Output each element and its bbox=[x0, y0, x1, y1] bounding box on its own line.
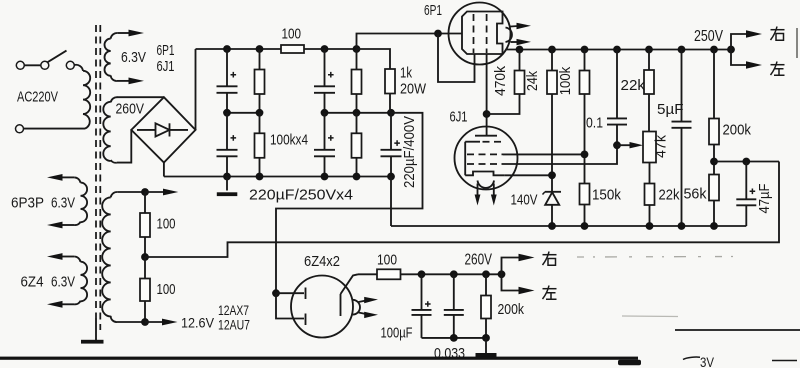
svg-text:56k: 56k bbox=[684, 186, 707, 203]
svg-text:6J1: 6J1 bbox=[157, 58, 175, 75]
wire bbox=[24, 64, 41, 66]
node bbox=[645, 46, 653, 54]
wire (node to 470k bottom) bbox=[487, 94, 520, 114]
svg-text:100: 100 bbox=[377, 252, 397, 269]
arrow output left (260V) bbox=[502, 274, 535, 294]
svg-text:6P3P: 6P3P bbox=[11, 196, 44, 212]
node bbox=[223, 173, 231, 181]
tube V1 6P1 envelope circle bbox=[449, 3, 511, 65]
node bbox=[450, 270, 458, 278]
node (heater mid tap) bbox=[141, 253, 149, 261]
node bbox=[516, 46, 524, 54]
winding 260V bbox=[103, 97, 117, 163]
wire (midpoint 2) bbox=[325, 112, 392, 114]
resistor R 100 (lower humdinger) bbox=[140, 257, 150, 322]
svg-text:6J1: 6J1 bbox=[450, 109, 468, 126]
node (47µF top) bbox=[742, 158, 750, 166]
wire + arrow 12.6V bbox=[145, 321, 163, 323]
node (heater top tap) bbox=[141, 188, 149, 196]
svg-text:6P1: 6P1 bbox=[157, 42, 175, 59]
wire (heater mid to bias net) bbox=[145, 162, 779, 258]
svg-text:100µF: 100µF bbox=[381, 325, 413, 342]
capacitor C 5µF bbox=[672, 50, 692, 227]
resistor R 56k bbox=[709, 175, 719, 227]
6Z4 plate 2 bbox=[276, 293, 306, 325]
arrow 6J1 heater 1 bbox=[475, 184, 481, 206]
svg-text:0.1: 0.1 bbox=[586, 115, 603, 132]
svg-text:6Z4x2: 6Z4x2 bbox=[304, 253, 340, 270]
wire (cap negatives) bbox=[422, 337, 487, 339]
resistor R 1k 20W bbox=[385, 69, 395, 113]
wire (midpoint 1) bbox=[227, 112, 260, 114]
node bbox=[498, 270, 506, 278]
svg-text:5µF: 5µF bbox=[657, 101, 684, 118]
resistor R 100 (rail) bbox=[281, 45, 357, 53]
svg-text:6.3V: 6.3V bbox=[121, 49, 146, 66]
wire (divider junction to 47µF and bias) bbox=[714, 161, 779, 163]
winding 12.6V heater bbox=[102, 192, 145, 322]
arrow 6Z4 top bbox=[47, 253, 63, 260]
svg-text:6.3V: 6.3V bbox=[51, 275, 75, 291]
wire (bridge + up to B+ rail) bbox=[195, 49, 197, 130]
svg-text:12.6V: 12.6V bbox=[181, 315, 215, 331]
svg-text:22k: 22k bbox=[659, 187, 680, 204]
node bbox=[353, 173, 361, 181]
node bbox=[646, 222, 654, 230]
wire (riser to 6P1 plate) bbox=[357, 34, 463, 50]
arrow 6P1 heater 2 bbox=[511, 39, 532, 45]
svg-text:470k: 470k bbox=[492, 66, 509, 96]
svg-text:200k: 200k bbox=[723, 122, 752, 139]
svg-text:AC220V: AC220V bbox=[17, 89, 58, 106]
resistor R 150k bbox=[580, 184, 590, 227]
6Z4 cathode bar bbox=[340, 294, 342, 316]
node bbox=[418, 270, 426, 278]
ground (6Z4 filter) bbox=[476, 338, 497, 357]
terminal J1 (AC line top) bbox=[16, 61, 24, 69]
wire (6J1 cathode to 24k) bbox=[504, 174, 552, 176]
wire (rail to 1k) bbox=[357, 49, 391, 69]
arrow output right (260V) bbox=[502, 254, 535, 275]
svg-text:100: 100 bbox=[157, 216, 176, 233]
arrow 6P3P top bbox=[47, 174, 63, 181]
svg-text:200k: 200k bbox=[498, 301, 525, 318]
resistor R 100k (upper, first) bbox=[255, 49, 265, 113]
wire bbox=[24, 128, 85, 130]
wire (6J1 grid2 to 100k/150k) bbox=[503, 153, 585, 155]
node (6Z4 plates feed) bbox=[272, 289, 280, 297]
svg-text:220µF/400V: 220µF/400V bbox=[401, 116, 418, 188]
resistor R 470k bbox=[515, 50, 525, 95]
artifact faint smudge bbox=[622, 315, 678, 318]
wire (6J1 grid1 to 0.1) bbox=[503, 145, 617, 164]
6P1 grid (dashed) bbox=[473, 14, 475, 53]
capacitor C 0.033 bbox=[444, 274, 464, 338]
node bbox=[548, 222, 556, 230]
node (0.1/wiper) bbox=[613, 141, 621, 149]
arrow 6.3V top bbox=[129, 30, 145, 37]
capacitor C 100µF bbox=[412, 274, 432, 338]
node bbox=[482, 270, 490, 278]
node bbox=[256, 173, 264, 181]
wire + arrow heater top bbox=[145, 191, 164, 193]
capacitor C2b 220µF (lower) bbox=[314, 113, 335, 177]
node bbox=[223, 109, 231, 117]
node bbox=[387, 109, 395, 117]
hanzi zuo (left) 250V bbox=[771, 62, 785, 76]
node bbox=[256, 109, 264, 117]
6P1 screen (dashed) bbox=[486, 14, 488, 53]
tube V3 6Z4 envelope circle bbox=[291, 276, 353, 338]
hanzi you (right) 250V bbox=[771, 27, 785, 41]
wire 250V rail bbox=[506, 49, 731, 51]
svg-text:6P1: 6P1 bbox=[424, 2, 442, 19]
node bbox=[581, 222, 589, 230]
resistor R 100k (right bank) bbox=[580, 50, 590, 184]
winding 6Z4 6.3V bbox=[63, 256, 88, 304]
resistor R 100 (upper humdinger) bbox=[140, 192, 150, 257]
wire (next schematic, top right) bbox=[675, 329, 800, 331]
wire (bridge - down to negative rail) bbox=[163, 163, 165, 177]
6J1 heater bump bbox=[478, 181, 495, 188]
arrow 6P1 heater 1 bbox=[511, 23, 532, 29]
wire B+ top rail bbox=[196, 48, 282, 50]
node bbox=[321, 173, 329, 181]
capacitor C1a 220µF (upper) bbox=[217, 49, 238, 113]
svg-text:22k: 22k bbox=[621, 77, 646, 94]
node bbox=[613, 46, 621, 54]
bridge diode symbol bbox=[137, 123, 188, 136]
svg-text:6Z4: 6Z4 bbox=[21, 275, 44, 291]
svg-text:220µF/250Vx4: 220µF/250Vx4 bbox=[249, 187, 353, 204]
resistor R 100 (6Z4 output) bbox=[377, 269, 502, 279]
arrow 6Z4 heater 1 bbox=[359, 297, 379, 303]
svg-text:47k: 47k bbox=[653, 135, 670, 158]
terminal J2 (switch pole) bbox=[41, 61, 49, 69]
node bbox=[321, 45, 329, 53]
wire (bottom rail to ground bus) bbox=[390, 177, 392, 227]
6P1 heater bump bbox=[506, 28, 512, 43]
6J1 grid2 row (dashed) bbox=[467, 153, 503, 155]
ground (filter) bbox=[217, 177, 238, 197]
arrow 6P3P bottom bbox=[47, 222, 63, 229]
node (100k/grid2) bbox=[581, 151, 589, 159]
resistor R 22k (lower right) bbox=[645, 184, 655, 227]
arrow output right (250V) bbox=[731, 30, 762, 49]
svg-text:100: 100 bbox=[282, 26, 302, 43]
ground (transformer core) bbox=[81, 340, 104, 344]
bridge rectifier D1 diamond bbox=[131, 97, 195, 162]
resistor R 100k (upper, second) bbox=[352, 49, 362, 113]
6Z4 cathode lead (diagonal) bbox=[341, 274, 359, 294]
node bbox=[223, 45, 231, 53]
svg-text:100kx4: 100kx4 bbox=[270, 132, 308, 149]
node bbox=[678, 46, 686, 54]
6J1 grid3 row bbox=[465, 141, 503, 143]
capacitor C 47µF bbox=[736, 162, 756, 227]
capacitor C2a 220µF (upper) bbox=[314, 49, 335, 113]
resistor R 100k (lower, second) bbox=[352, 113, 362, 177]
potentiometer R 47k bbox=[643, 132, 656, 184]
wire ground bus bbox=[391, 225, 746, 227]
artifact faint dotted line bbox=[577, 256, 738, 259]
node bbox=[548, 46, 556, 54]
resistor R 200k (right) bbox=[709, 50, 719, 175]
zener D2 140V bbox=[543, 192, 562, 226]
6J1 grid box left edge bbox=[464, 142, 466, 176]
node bbox=[353, 45, 361, 53]
node bbox=[353, 109, 361, 117]
6P1 plate structure bbox=[462, 12, 503, 55]
capacitor C 0.1 bbox=[607, 50, 627, 146]
svg-text:260V: 260V bbox=[465, 252, 493, 269]
6J1 grid1 row (dashed) bbox=[467, 163, 503, 165]
node (heater bottom tap) bbox=[141, 318, 149, 326]
transformer T1 core bbox=[96, 25, 100, 340]
node bbox=[581, 46, 589, 54]
node bbox=[727, 46, 735, 54]
wire (next schematic, 3V lead) bbox=[683, 357, 700, 359]
svg-text:6.3V: 6.3V bbox=[51, 196, 75, 212]
resistor R 24k bbox=[547, 50, 557, 192]
arrow 6Z4 bottom bbox=[47, 301, 63, 308]
node (6J1 plate / 6P1 cathode) bbox=[483, 110, 491, 118]
node (6J1 cathode/24k) bbox=[548, 171, 556, 179]
wire (negative bottom rail) bbox=[164, 176, 391, 178]
wire (6P1 grid return) bbox=[438, 34, 475, 83]
6J1 cathode bbox=[465, 172, 504, 176]
wire (260V bottom to bridge) bbox=[117, 130, 131, 163]
svg-text:47µF: 47µF bbox=[756, 184, 773, 214]
svg-text:140V: 140V bbox=[511, 192, 538, 209]
wire (260V top to bridge) bbox=[117, 96, 164, 98]
node bbox=[256, 45, 264, 53]
6Z4 heater bump bbox=[353, 300, 360, 315]
6P1 cathode lead down to 6J1 plate node bbox=[486, 54, 488, 136]
resistor R 22k (upper right) bbox=[644, 50, 654, 132]
tube V2 6J1 envelope circle bbox=[455, 127, 518, 190]
node bbox=[482, 334, 490, 342]
svg-text:12AU7: 12AU7 bbox=[218, 317, 250, 333]
wire (cathode to 100) bbox=[358, 273, 377, 275]
arrow output left (250V) bbox=[731, 50, 762, 69]
svg-text:20W: 20W bbox=[400, 81, 427, 98]
terminal J3 (switch throw) bbox=[66, 61, 74, 69]
node bbox=[450, 334, 458, 342]
node bbox=[710, 46, 718, 54]
6P1 grid lead bbox=[474, 54, 476, 63]
node bbox=[321, 109, 329, 117]
svg-text:1k: 1k bbox=[400, 65, 412, 82]
svg-text:100k: 100k bbox=[557, 66, 574, 95]
artifact right edge tick bbox=[796, 28, 798, 58]
winding 6P3P 6.3V bbox=[63, 177, 88, 225]
svg-text:250V: 250V bbox=[694, 28, 723, 45]
transformer T1 primary winding bbox=[74, 65, 90, 129]
resistor R 100k (lower, first) bbox=[255, 113, 265, 177]
border bottom bar bbox=[0, 357, 638, 360]
svg-text:150k: 150k bbox=[592, 187, 621, 204]
terminal J4 (AC line bottom) bbox=[16, 125, 24, 133]
node (200k/56k junction) bbox=[710, 158, 718, 166]
hanzi zuo (left) 260V bbox=[543, 286, 557, 300]
arrow 6Z4 heater 2 bbox=[359, 312, 379, 318]
svg-text:100: 100 bbox=[157, 281, 176, 298]
wire + arrow to 47k wiper bbox=[617, 142, 643, 148]
node bbox=[434, 30, 442, 38]
svg-text:3V: 3V bbox=[700, 354, 715, 368]
switch S1 lever bbox=[48, 51, 67, 63]
winding 6.3V (6P1 6J1 heaters) bbox=[104, 33, 129, 81]
arrow 6.3V bottom bbox=[129, 78, 145, 85]
capacitor C3 220µF/400V bbox=[381, 113, 402, 177]
hanzi you (right) 260V bbox=[543, 252, 557, 266]
node bbox=[710, 222, 718, 230]
6Z4 plate 1 bbox=[276, 288, 306, 300]
node bbox=[678, 222, 686, 230]
wire (cap midpoint to 6Z4 feed) bbox=[276, 113, 423, 293]
capacitor C1b 220µF (lower) bbox=[217, 113, 238, 177]
node bbox=[387, 173, 395, 181]
wire (next schematic, right stub) bbox=[772, 360, 797, 362]
6J1 plate bar bbox=[475, 135, 497, 137]
arrow 6J1 heater 2 bbox=[491, 184, 497, 206]
svg-text:260V: 260V bbox=[116, 101, 145, 118]
svg-text:24k: 24k bbox=[524, 71, 541, 91]
resistor R 200k (6Z4) bbox=[481, 274, 491, 338]
border bottom blob bbox=[618, 360, 641, 365]
